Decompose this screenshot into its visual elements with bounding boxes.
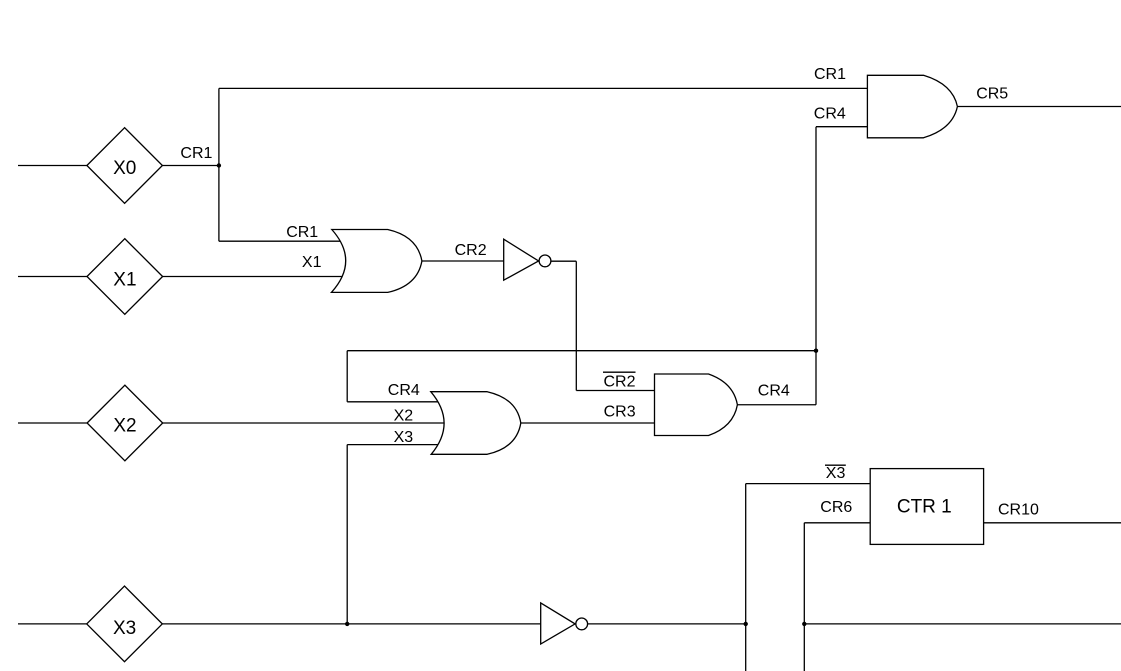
- wire CR2 inverter N1 output going right: [551, 260, 576, 262]
- svg-text:CR1: CR1: [180, 145, 212, 162]
- wire CR6 vertical through junction down to bottom edge: [803, 523, 805, 671]
- wire CR1 into OR gate G1: [219, 240, 346, 242]
- svg-text:CR6: CR6: [820, 499, 852, 516]
- wire CR4 from AND gate G3 output to corner: [737, 404, 816, 406]
- wire X3-bar inverter N2 output to junction: [588, 623, 746, 625]
- inverter N2 triangle: [541, 603, 575, 644]
- wire CR6 into CTR 1: [804, 522, 870, 524]
- overline of CR2-bar label: [603, 371, 636, 373]
- svg-text:CR4: CR4: [814, 105, 846, 122]
- svg-text:X3: X3: [394, 429, 414, 446]
- wire CR10 output of CTR 1 to right edge: [984, 522, 1121, 524]
- and-gate G3 (CR2bar,CR3 -> CR4): [655, 374, 738, 436]
- svg-text:CR4: CR4: [758, 383, 790, 400]
- wire CR4 vertical up to AND gate U1 input: [815, 127, 817, 405]
- svg-text:CTR 1: CTR 1: [897, 496, 952, 517]
- svg-text:CR3: CR3: [604, 404, 636, 421]
- wire CR1 vertical from top run down to OR gate input: [218, 88, 220, 241]
- or-gate G1 (CR1,X1 -> CR2): [331, 230, 422, 293]
- contact X3 diamond: [87, 586, 163, 662]
- wire bottom horizontal from CR6 junction to right edge: [804, 623, 1121, 625]
- svg-text:X3: X3: [113, 618, 136, 639]
- wire CR1 top horizontal run to AND gate U1 input: [219, 87, 868, 89]
- svg-text:CR10: CR10: [998, 502, 1039, 519]
- svg-text:CR1: CR1: [286, 224, 318, 241]
- svg-text:CR2: CR2: [455, 242, 487, 259]
- inverter N1 bubble: [539, 255, 551, 267]
- wire X1 input stub and X1 into OR gate G1: [18, 276, 346, 278]
- wire X2 input stub and X2 into OR gate G2: [18, 422, 450, 424]
- junction X3-bar: [744, 622, 748, 626]
- svg-text:CR1: CR1: [814, 66, 846, 83]
- svg-text:CR5: CR5: [976, 86, 1008, 103]
- svg-text:X1: X1: [113, 269, 136, 290]
- contact X2 diamond: [87, 385, 163, 461]
- svg-text:CR2: CR2: [604, 374, 636, 391]
- wire CR2-bar into AND gate G3: [576, 390, 654, 392]
- inverter N1 triangle: [504, 239, 539, 280]
- and-gate U1 (CR1,CR4 -> CR5): [867, 75, 957, 138]
- wire CR3 from OR gate G2 output to AND gate G3: [521, 422, 655, 424]
- junction CR6: [802, 622, 806, 626]
- junction X3 branch: [345, 622, 349, 626]
- wire X3-bar into CTR 1: [746, 483, 871, 485]
- wire X3 into OR gate G2: [347, 444, 450, 446]
- svg-text:X2: X2: [113, 416, 136, 437]
- junction CR1 at X0 output: [217, 163, 221, 167]
- wire X0 input stub and X0 output to junction: [18, 165, 219, 167]
- svg-text:X1: X1: [302, 254, 322, 271]
- wire X3 input stub and X3 line to inverter N2: [18, 623, 540, 625]
- svg-text:X2: X2: [394, 408, 414, 425]
- contact X0 diamond: [87, 128, 162, 204]
- or-gate G2 (CR4,X2,X3 -> CR3): [431, 392, 521, 455]
- wire CR2-bar vertical down: [575, 261, 577, 390]
- wire CR2 from OR gate G1 output to inverter N1: [422, 260, 504, 262]
- contact X1 diamond: [87, 239, 163, 315]
- wire X3-bar vertical through junction down to bottom edge: [745, 484, 747, 671]
- wire CR5 output of AND gate U1 to right edge: [957, 106, 1121, 108]
- wire X3 vertical from X3 line up to OR gate G2 input: [346, 445, 348, 624]
- wire CR4 vertical down to OR gate G2 input: [346, 351, 348, 402]
- counter CTR1 box: [870, 469, 983, 545]
- wire CR4 into AND gate U1: [816, 126, 867, 128]
- svg-text:X0: X0: [113, 158, 136, 179]
- svg-text:X3: X3: [826, 465, 846, 482]
- junction CR4 branch: [814, 349, 818, 353]
- wire CR4 horizontal branch at y=350.7: [347, 350, 816, 352]
- inverter N2 bubble: [576, 618, 588, 630]
- overline of X3-bar label: [825, 464, 846, 466]
- wire CR4 into OR gate G2: [347, 401, 450, 403]
- svg-text:CR4: CR4: [388, 382, 420, 399]
